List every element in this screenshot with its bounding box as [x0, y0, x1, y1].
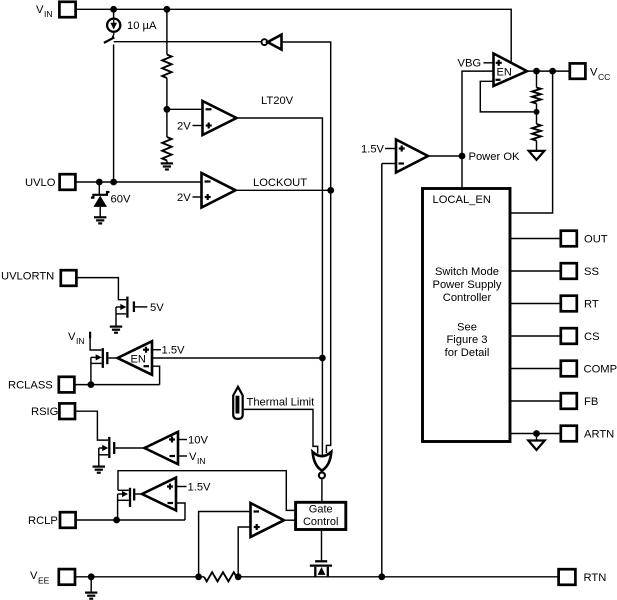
- junction ARTN ground tap: [533, 430, 540, 437]
- junction RCLP source node: [113, 517, 120, 524]
- svg-text:Controller: Controller: [443, 292, 492, 304]
- junction RCLASS source node: [88, 381, 95, 388]
- junction rail sense right: [235, 573, 242, 580]
- svg-text:Figure 3: Figure 3: [446, 334, 487, 346]
- junction feedback divider node: [534, 109, 540, 115]
- pin COMP: [561, 361, 617, 377]
- svg-text:CS: CS: [584, 331, 600, 343]
- pin RCLASS: [8, 377, 74, 393]
- wire node to LT20V minus input: [167, 108, 203, 110]
- svg-text:for Detail: for Detail: [445, 347, 490, 359]
- net label VBG: [458, 58, 494, 70]
- svg-text:10 µA: 10 µA: [127, 20, 157, 32]
- thermal limit sensor: [233, 387, 243, 419]
- wire NOR output to gate control: [321, 479, 323, 502]
- wire UVLO to LOCKOUT: [75, 181, 201, 183]
- value label 5V gate of Q1: [135, 302, 164, 314]
- value label 1.5V for Power OK comparator: [361, 144, 396, 156]
- svg-text:Thermal Limit: Thermal Limit: [247, 397, 316, 409]
- value label 10V for U4: [178, 435, 208, 447]
- svg-text:IN: IN: [76, 336, 85, 346]
- wire OUT: [511, 238, 560, 240]
- ground below R2: [161, 163, 173, 169]
- net label VIN at U4 minus: [178, 451, 206, 466]
- wire RSIG to Q3 drain: [75, 411, 108, 440]
- op-amp comparator LOCKOUT: [202, 173, 236, 208]
- pin RT: [561, 296, 599, 312]
- svg-text:Power OK: Power OK: [469, 151, 521, 163]
- pin RTN: [559, 569, 607, 585]
- svg-text:EE: EE: [38, 576, 50, 586]
- pin UVLO: [25, 174, 75, 190]
- op-amp comparator Power OK 1.5V: [396, 140, 428, 173]
- wire Power OK output: [428, 155, 462, 157]
- value label 2V for LT20V: [177, 121, 203, 133]
- junction rail sense left: [195, 573, 202, 580]
- svg-text:RCLASS: RCLASS: [8, 380, 53, 392]
- junction VCC to controller line: [549, 68, 556, 75]
- wire LT20V output: [237, 118, 323, 456]
- svg-text:Gate: Gate: [309, 504, 333, 516]
- ground below zener: [94, 217, 106, 223]
- svg-text:2V: 2V: [177, 192, 191, 204]
- wire RCLASS: [74, 384, 159, 386]
- ground below Q3: [93, 467, 105, 473]
- svg-text:COMP: COMP: [584, 364, 617, 376]
- block LOCAL_EN switch mode power supply controller: [423, 189, 511, 442]
- pin VCC: [570, 63, 610, 82]
- junction EN wire on LT20V line: [319, 355, 326, 362]
- wire VEE rail left: [75, 576, 204, 578]
- svg-text:VBG: VBG: [458, 58, 482, 70]
- transistor Q1 UVLORTN clamp: [116, 297, 134, 327]
- op-amp U1 VCC regulator EN: [494, 54, 528, 87]
- wire U1 output to VCC: [527, 70, 569, 72]
- transistor Q4 RCLP: [118, 488, 135, 520]
- wire RCLP: [76, 519, 185, 521]
- svg-text:UVLORTN: UVLORTN: [1, 271, 54, 283]
- wire CS: [511, 335, 560, 337]
- wire Q4 drain stub: [118, 489, 129, 491]
- transistor Q3 RSIG: [99, 437, 114, 466]
- op-amp comparator U7 gate drive: [251, 503, 285, 537]
- net label VIN at Q4 drain wire to gate control: [118, 471, 295, 511]
- wire VIN to Q2 drain: [90, 338, 102, 350]
- svg-text:See: See: [457, 322, 477, 334]
- wire U3 minus feedback to RCLASS: [152, 366, 160, 384]
- transistor Q2 RCLASS: [91, 348, 107, 385]
- junction VCC divider tap: [533, 68, 540, 75]
- op-amp U6 current limit amp: [142, 478, 176, 511]
- switch SW1: [104, 32, 114, 43]
- svg-text:ARTN: ARTN: [584, 429, 614, 441]
- wire ARTN: [511, 433, 560, 435]
- net label VIN at Q2 drain: [68, 331, 90, 346]
- zener diode D1 60V: [91, 182, 110, 217]
- pin UVLORTN: [1, 270, 76, 286]
- svg-text:RTN: RTN: [584, 572, 607, 584]
- wire Power OK down to LOCAL_EN: [461, 156, 463, 188]
- wire Power OK up to EN input: [462, 71, 494, 156]
- resistor R5 sense: [204, 572, 237, 581]
- pin CS: [561, 328, 600, 344]
- wire FB: [511, 400, 560, 402]
- svg-text:UVLO: UVLO: [25, 177, 56, 189]
- svg-text:LT20V: LT20V: [261, 95, 294, 107]
- wire switch to inverter: [114, 41, 262, 43]
- wire U7 plus to rail sense right: [238, 527, 250, 577]
- wire LOCKOUT output: [236, 189, 331, 191]
- pin ARTN: [561, 426, 614, 442]
- wire U1 minus feedback: [480, 81, 536, 112]
- resistor R2: [162, 137, 171, 161]
- svg-text:1.5V: 1.5V: [361, 144, 385, 156]
- svg-text:1.5V: 1.5V: [162, 345, 186, 357]
- op-amp comparator LT20V: [203, 101, 237, 135]
- value label 1.5V for U6: [176, 482, 211, 494]
- wire U6 minus feedback to RCLP: [176, 503, 185, 520]
- wire Q4 gate to U6: [135, 493, 141, 495]
- pin FB: [561, 393, 598, 409]
- wire switch down to UVLO: [113, 45, 115, 183]
- svg-text:RCLP: RCLP: [28, 515, 58, 527]
- wire SS: [511, 270, 560, 272]
- junction VIN resistor tap: [164, 6, 171, 13]
- junction Power OK node: [459, 153, 466, 160]
- wire inverter input from LOCKOUT line: [282, 42, 331, 453]
- ground below Q1: [110, 327, 122, 333]
- resistor R4: [532, 124, 541, 141]
- ground below VEE: [85, 577, 97, 599]
- junction LOCKOUT inverter line: [327, 187, 334, 194]
- wire U3 EN input from LT20V line: [152, 357, 322, 359]
- nor gate U5: [313, 452, 332, 479]
- wire R3 to R4: [536, 104, 538, 125]
- junction divider node 2V tap: [164, 106, 171, 113]
- transistor Q5 power MOSFET: [310, 561, 332, 577]
- wire Q3 gate to U4: [115, 447, 144, 449]
- pin SS: [561, 263, 599, 279]
- svg-text:V: V: [30, 570, 38, 582]
- pin RSIG: [31, 403, 75, 419]
- svg-text:OUT: OUT: [584, 234, 608, 246]
- svg-text:SS: SS: [584, 266, 599, 278]
- wire Q2 gate to EN amp: [108, 357, 117, 359]
- wire VCC line to controller right edge: [511, 71, 553, 213]
- svg-text:Control: Control: [303, 516, 338, 528]
- junction UVLO switch line: [110, 179, 117, 186]
- pin OUT: [561, 231, 608, 247]
- wire U7 output to gate control: [284, 519, 295, 521]
- svg-text:V: V: [189, 451, 197, 463]
- svg-text:RT: RT: [584, 299, 599, 311]
- ground triangle below R4: [529, 151, 545, 160]
- wire UVLORTN to Q1 drain: [76, 278, 126, 300]
- wire R4 to ground: [536, 141, 538, 150]
- wire VIN top rail: [77, 9, 511, 62]
- svg-text:V: V: [36, 4, 44, 16]
- value label 1.5V for U3: [152, 345, 185, 357]
- svg-text:2V: 2V: [177, 121, 191, 133]
- pin VIN: [36, 2, 76, 19]
- wire VCC node down to R3: [536, 71, 538, 87]
- pin RCLP: [28, 512, 76, 528]
- wire VEE rail right: [237, 576, 559, 578]
- wire R2 to ground: [166, 161, 168, 164]
- wire VIN to resistor R1: [166, 9, 168, 54]
- value label 2V for LOCKOUT: [177, 192, 202, 204]
- svg-text:RSIG: RSIG: [31, 406, 58, 418]
- wire U7 minus to rail sense left: [199, 512, 251, 577]
- svg-text:Power Supply: Power Supply: [432, 279, 501, 291]
- svg-text:FB: FB: [584, 396, 598, 408]
- svg-text:10V: 10V: [188, 435, 208, 447]
- svg-text:V: V: [68, 331, 76, 343]
- wire RT: [511, 303, 560, 305]
- junction rail to power ok sense: [378, 573, 385, 580]
- op-amp U4 signature amp: [145, 432, 179, 464]
- svg-text:EN: EN: [497, 67, 512, 79]
- ground triangle at ARTN: [528, 434, 544, 450]
- svg-text:IN: IN: [44, 9, 53, 19]
- svg-text:60V: 60V: [111, 194, 131, 206]
- wire R1 to R2: [166, 78, 168, 137]
- op-amp U3 EN classification amp: [118, 341, 153, 375]
- svg-text:1.5V: 1.5V: [188, 482, 212, 494]
- wire gate control to Q5 gate: [321, 529, 323, 561]
- svg-text:IN: IN: [197, 456, 206, 466]
- inverter U2: [262, 35, 282, 50]
- svg-text:5V: 5V: [150, 302, 164, 314]
- wire thermal limit to NOR: [244, 409, 318, 453]
- junction VIN current source tap: [110, 6, 117, 13]
- pin VEE: [30, 569, 75, 585]
- junction VEE ground tap: [88, 573, 95, 580]
- svg-text:Switch Mode: Switch Mode: [435, 266, 499, 278]
- svg-text:CC: CC: [598, 72, 610, 82]
- wire sense line down to VEE rail: [381, 164, 383, 577]
- block gate control: [296, 502, 346, 529]
- wire COMP: [511, 368, 560, 370]
- junction UVLO zener tap: [96, 179, 103, 186]
- wire Power OK minus input from VEE sense line: [382, 163, 396, 165]
- resistor R3: [532, 88, 541, 104]
- resistor R1: [162, 55, 171, 79]
- svg-text:EN: EN: [131, 354, 146, 366]
- current source I1 10uA: [107, 9, 157, 32]
- svg-text:LOCAL_EN: LOCAL_EN: [433, 194, 491, 206]
- svg-text:V: V: [590, 67, 598, 79]
- svg-text:LOCKOUT: LOCKOUT: [253, 177, 307, 189]
